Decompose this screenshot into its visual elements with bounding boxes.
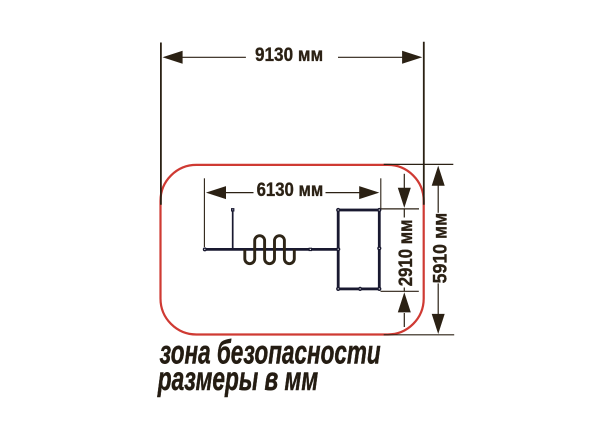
platform rectangle xyxy=(338,210,379,289)
node: rect mid-right xyxy=(377,246,381,250)
node: rect bottom-left xyxy=(336,287,340,291)
dimension 2910: bottom arrow (pointing up) xyxy=(398,292,411,312)
node: rect mid-left xyxy=(336,247,340,251)
dimension 5910: top extension line xyxy=(384,163,454,165)
dimension 9130: line right segment xyxy=(338,56,403,58)
dimension 6130: right arrow xyxy=(359,186,379,199)
dimension 2910: top tail line xyxy=(403,174,405,189)
dimension 2910: inner segment top xyxy=(403,209,405,218)
node: rect top-right xyxy=(377,208,381,212)
dimension 5910: bottom extension line xyxy=(384,334,455,336)
safety zone boundary (red rounded rect) xyxy=(161,165,424,335)
svg-text:6130 мм: 6130 мм xyxy=(257,179,324,200)
dimension 2910: bottom extension line xyxy=(381,290,419,292)
dimension 5910: line top segment xyxy=(437,184,439,213)
dimension 6130: left extension line xyxy=(203,178,205,247)
svg-text:2910 мм: 2910 мм xyxy=(395,219,416,286)
dimension 9130: line left segment xyxy=(181,56,246,58)
node: rect bottom-right xyxy=(377,287,381,291)
dimension 9130: left arrow xyxy=(163,51,183,64)
svg-text:размеры в мм: размеры в мм xyxy=(157,361,318,398)
node: bar left end xyxy=(203,247,207,251)
dimension 2910: inner segment bottom xyxy=(403,288,405,292)
node: bar mid square xyxy=(309,248,312,251)
dimension 5910: bottom arrow (pointing down) xyxy=(432,314,445,334)
svg-text:5910 мм: 5910 мм xyxy=(429,213,451,284)
dimension 6130: right extension line xyxy=(380,178,382,208)
svg-text:9130 мм: 9130 мм xyxy=(255,43,323,65)
dimension 2910: bottom tail line xyxy=(403,313,405,327)
node: rect top-left xyxy=(336,208,340,212)
dimension 9130: right extension line xyxy=(423,42,425,205)
wire: vertical post xyxy=(232,211,234,250)
dimension 9130: right arrow xyxy=(402,51,422,64)
serpentine beam (wiggly element) xyxy=(245,236,294,264)
dimension 6130: line left segment xyxy=(224,192,254,194)
dimension 5910: top arrow (pointing up) xyxy=(432,166,445,186)
dimension 5910: line bottom segment xyxy=(437,283,439,315)
node: post top square xyxy=(231,208,234,211)
dimension 2910: top arrow (pointing down) xyxy=(398,188,411,208)
wire: equipment main bar xyxy=(205,248,338,251)
dimension 6130: left arrow xyxy=(206,186,226,199)
dimension 6130: line right segment xyxy=(326,192,362,194)
dimension 9130: left extension line xyxy=(160,43,162,205)
node: rect bottom-mid xyxy=(358,287,362,291)
dimension 2910: top extension line xyxy=(381,208,419,210)
